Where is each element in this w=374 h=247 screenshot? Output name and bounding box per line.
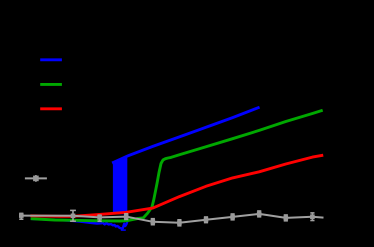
gray errorbar series line [21,214,322,223]
gray error bars [19,210,314,225]
green series [32,111,321,221]
legend: gray errorbar handle [25,175,47,182]
legend: green handle [40,83,62,86]
blue noise lower excursion dash [121,229,126,231]
blue transition bar (dense oscillation) [113,156,127,214]
blue rising line [113,108,258,163]
gray square markers [19,212,315,226]
legend: red handle [40,107,62,110]
red series [32,155,322,216]
blue series noisy baseline [32,219,127,229]
legend: blue handle [40,58,62,61]
